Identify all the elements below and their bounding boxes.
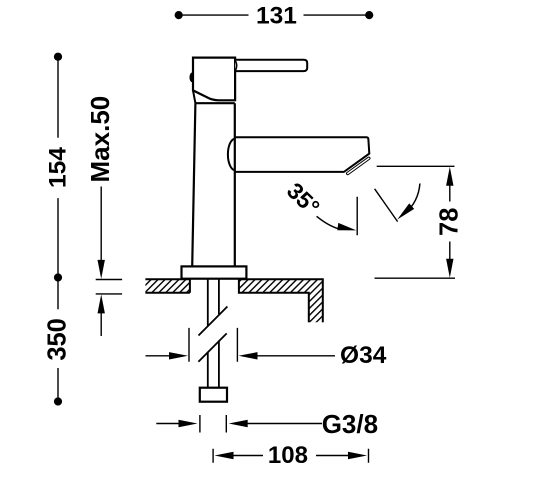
svg-text:350: 350 — [44, 318, 72, 361]
svg-text:Ø34: Ø34 — [340, 342, 387, 369]
svg-text:108: 108 — [268, 442, 308, 469]
svg-text:131: 131 — [256, 2, 297, 29]
svg-text:154: 154 — [45, 147, 72, 188]
svg-text:Max.50: Max.50 — [85, 96, 115, 183]
svg-text:G3/8: G3/8 — [322, 409, 378, 439]
svg-text:78: 78 — [436, 208, 464, 236]
